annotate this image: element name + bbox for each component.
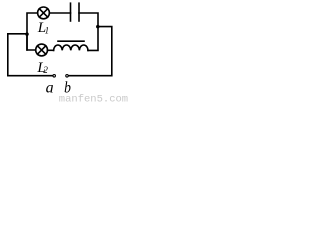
terminal a open circle [53, 75, 56, 78]
wire: node A down to lamp L2 lead [27, 34, 36, 50]
wire: lamp L2 to inductor [48, 49, 54, 51]
capacitor C right plate [78, 3, 80, 21]
junction node A dot [25, 32, 29, 36]
wire: lamp L1 to capacitor left plate [49, 12, 70, 14]
svg-text:1: 1 [45, 25, 50, 35]
wire: node A left to left rail down to terminal a [8, 34, 52, 76]
terminal b open circle [66, 75, 69, 78]
lamp L2 [36, 44, 48, 56]
lamp L1 [38, 7, 50, 19]
junction node B dot [96, 25, 100, 29]
inductor core bar [58, 40, 84, 42]
svg-text:2: 2 [43, 65, 48, 75]
inductor L coil (4 humps) [54, 45, 88, 50]
svg-text:a: a [46, 79, 54, 96]
wire: node B right then down to terminal b wire [69, 27, 112, 76]
svg-text:manfen5.com: manfen5.com [59, 94, 128, 102]
wire: top-left corner segment from node A up to lamp L1 lead [27, 13, 38, 50]
wire: node B down then left to inductor end [88, 27, 98, 51]
wire: capacitor to top-right corner down to node B [79, 13, 98, 27]
capacitor C left plate [70, 3, 72, 21]
